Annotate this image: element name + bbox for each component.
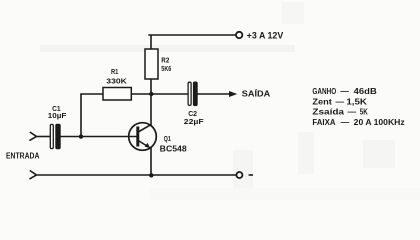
svg-text:—: —: [336, 98, 345, 107]
svg-text:46dB: 46dB: [354, 87, 378, 96]
svg-text:R1: R1: [111, 67, 118, 76]
wire C1 to base: [61, 136, 137, 138]
svg-text:BC548: BC548: [160, 144, 188, 153]
svg-text:+3 A 12V: +3 A 12V: [247, 30, 284, 40]
svg-text:20 A 100KHz: 20 A 100KHz: [354, 118, 405, 127]
svg-text:GANHO: GANHO: [312, 87, 336, 96]
node collector junction: [149, 92, 153, 96]
node emitter-bottom junction: [149, 173, 153, 177]
terminal +V: [236, 32, 242, 38]
svg-text:1,5K: 1,5K: [346, 98, 367, 107]
svg-text:Zsaída: Zsaída: [312, 108, 344, 117]
output arrow: [229, 91, 237, 97]
svg-text:ENTRADA: ENTRADA: [6, 151, 40, 160]
wire C2 to output arrow: [198, 93, 231, 95]
capacitor C2: [188, 82, 198, 107]
faint scan smudge: [40, 45, 295, 52]
wire input to C1: [37, 136, 51, 138]
svg-text:—: —: [341, 118, 350, 127]
svg-text:—: —: [340, 87, 349, 96]
resistor R2: [145, 49, 158, 79]
svg-text:5K6: 5K6: [161, 64, 171, 73]
spec text block: [312, 87, 404, 127]
svg-text:Q1: Q1: [164, 134, 171, 143]
svg-text:22µF: 22µF: [184, 117, 205, 126]
svg-text:SAÍDA: SAÍDA: [242, 89, 271, 98]
svg-text:Zent: Zent: [312, 98, 332, 107]
wire collector vertical: [150, 94, 152, 125]
input arrow top: [29, 132, 36, 141]
node base junction: [79, 134, 83, 138]
transistor Q1: [129, 123, 157, 151]
wire feedback left segment: [81, 94, 103, 137]
svg-text:10µF: 10µF: [48, 111, 67, 120]
wire emitter vertical: [150, 149, 152, 176]
svg-text:5K: 5K: [360, 108, 368, 117]
resistor R1: [103, 88, 131, 101]
wire bottom rail: [38, 174, 237, 176]
wire top rail: [148, 35, 236, 50]
svg-text:330K: 330K: [106, 77, 127, 86]
wire node to C2: [131, 93, 188, 95]
terminal minus: [236, 172, 242, 178]
wire R2 bottom to collector node: [150, 79, 152, 94]
svg-text:FAIXA: FAIXA: [312, 118, 335, 127]
label minus: [249, 174, 253, 176]
input arrow bottom: [29, 171, 36, 180]
svg-text:—: —: [348, 108, 357, 117]
capacitor C1: [50, 124, 60, 150]
